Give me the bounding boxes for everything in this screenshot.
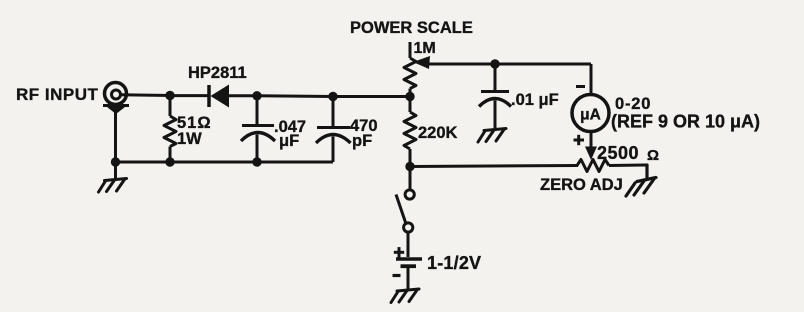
wiper arrow of R2 (413, 56, 495, 69)
svg-text:POWER SCALE: POWER SCALE (350, 19, 473, 37)
svg-text:220K: 220K (418, 124, 458, 142)
wire meter to wiper arrow of R4 (590, 132, 593, 150)
connector J1 (RF input jack) (103, 83, 129, 115)
wire connector down to ground rail (114, 111, 117, 162)
switch S1 (396, 190, 414, 232)
plus sign of meter (574, 135, 585, 145)
svg-text:0-20: 0-20 (615, 95, 651, 113)
junction dot ground rail left (111, 157, 120, 166)
svg-text:Ω: Ω (647, 147, 659, 164)
right bottom rail wire (410, 166, 578, 167)
resistor R1 51 ohm 1W (164, 96, 176, 163)
ground G1 (99, 162, 127, 192)
wire node A to diode (170, 94, 209, 97)
wire switch to battery (407, 232, 410, 257)
node F junction dot (wiper to .01uF) (490, 59, 499, 68)
wire node F to meter branch (495, 63, 591, 66)
ground G2 (.01 uF) (478, 112, 506, 142)
plus sign of battery (394, 247, 404, 257)
ground G4 (battery) (391, 273, 419, 303)
svg-text:1M: 1M (414, 40, 436, 57)
svg-text:RF INPUT: RF INPUT (16, 85, 99, 104)
svg-text:1-1/2V: 1-1/2V (427, 253, 481, 273)
junction dot R1 bottom (165, 157, 174, 166)
ground G3 (right) (626, 165, 656, 196)
meter M1 microammeter (572, 95, 609, 132)
svg-text:ZERO ADJ: ZERO ADJ (540, 176, 623, 194)
ground rail (bottom left) (116, 161, 334, 164)
svg-text:μF: μF (279, 132, 299, 150)
junction dot C1 bottom (252, 157, 261, 166)
node A junction dot (165, 91, 174, 100)
capacitor C2 470 pF (316, 97, 351, 163)
node B junction dot (252, 91, 261, 100)
svg-text:1W: 1W (177, 130, 202, 148)
minus sign of battery (393, 274, 401, 277)
wiper arrow of R4 (down) (585, 147, 597, 161)
battery BT1 1-1/2V (396, 259, 422, 287)
potentiometer R2 1M POWER SCALE (404, 42, 416, 97)
wire node E to switch (409, 167, 412, 191)
minus sign of meter (576, 85, 585, 88)
resistor R3 220K (404, 97, 416, 167)
node D junction dot (405, 92, 414, 101)
wire down to meter (590, 64, 593, 95)
node E junction dot (405, 162, 414, 171)
capacitor C3 .01 uF (479, 64, 511, 127)
svg-text:μA: μA (580, 107, 601, 124)
diode CR1 HP2811 (209, 85, 257, 108)
capacitor C1 .047 uF (241, 96, 275, 162)
svg-text:HP2811: HP2811 (188, 64, 247, 82)
svg-text:pF: pF (352, 132, 372, 150)
potentiometer R4 2500 ohm ZERO ADJ (577, 160, 647, 172)
wire node B to node C (257, 94, 333, 98)
svg-text:(REF 9 OR 10 μA): (REF 9 OR 10 μA) (611, 112, 760, 132)
node C junction dot (328, 92, 337, 101)
wire to right ground (646, 165, 649, 179)
wire connector to node A (120, 93, 172, 97)
wire node C to node D (333, 95, 410, 98)
svg-text:.01 μF: .01 μF (511, 91, 559, 109)
